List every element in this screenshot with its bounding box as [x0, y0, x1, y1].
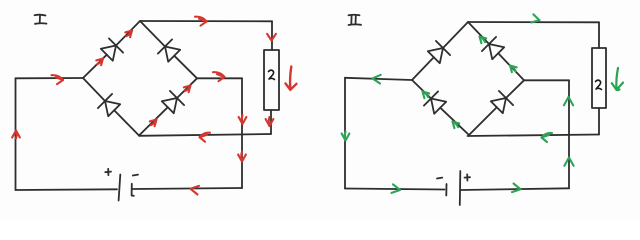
- red arrow right on top wire (circuit I): [195, 17, 207, 26]
- green arrow right on bottom wire left (circuit II): [392, 184, 401, 193]
- diode D3 (circuit I bottom-left): [98, 94, 120, 116]
- wire: bridge side top-right (circuit II): [468, 22, 524, 80]
- resistor R1 label R: [269, 70, 275, 79]
- green arrow up on right vertical lower (circuit II): [564, 158, 573, 166]
- red arrow up on left vertical (circuit I): [12, 131, 20, 139]
- red arrow down beside resistor R1: [286, 67, 297, 90]
- green arrow right on bottom wire right (circuit II): [512, 184, 521, 193]
- resistor R2 body: [592, 48, 606, 108]
- green arrow down beside resistor R2: [612, 68, 623, 90]
- green arrow right on top wire (circuit II): [531, 14, 539, 22]
- red arrow on D1 cathode diagonal (circuit I): [125, 31, 132, 38]
- diode D2 (circuit I top-right): [158, 39, 180, 61]
- wire: bridge side left-top (circuit II): [412, 22, 468, 80]
- battery V1 minus sign: [133, 174, 138, 177]
- green arrow on D6 anode diagonal (circuit II): [510, 66, 517, 73]
- green arrow on D6 cathode diagonal (circuit II): [480, 37, 487, 44]
- battery V1 positive plate (long): [119, 175, 121, 201]
- wire: right vertical x=569 (circuit II): [568, 80, 570, 188]
- battery V1 negative plate (short): [132, 184, 134, 196]
- resistor R2 label R: [596, 80, 602, 89]
- wire: top horizontal (circuit I): [140, 20, 272, 22]
- green arrow left on left horizontal (circuit II): [373, 75, 381, 84]
- diode D5 (circuit II top-left): [428, 41, 450, 63]
- wire: left vertical (circuit II): [344, 78, 346, 189]
- green arrow on D7 anode diagonal (circuit II): [453, 122, 460, 129]
- wire: bridge side bottom-right (circuit II): [469, 80, 524, 135]
- wire: bridge side bottom-right (circuit I): [139, 78, 197, 135]
- wire: top horizontal (circuit II): [468, 21, 599, 23]
- red arrow down on right vertical lower (circuit I): [238, 152, 246, 162]
- wire: resistor R1 bottom lead: [270, 110, 272, 134]
- diode D7 (circuit II bottom-left): [424, 91, 446, 113]
- green arrow left on bottom-vertex wire (circuit II): [542, 133, 553, 142]
- red arrow down on R1 top lead (circuit I): [267, 34, 276, 41]
- wire: bottom-vertex horizontal to R1 (circuit I): [139, 134, 271, 136]
- red arrow on D4 cathode diagonal (circuit I): [184, 86, 191, 93]
- green arrow up on right vertical upper (circuit II): [564, 97, 573, 105]
- battery V1 plus sign: [105, 169, 111, 175]
- diode D1 (circuit I top-left): [101, 38, 123, 60]
- red arrow right on left horizontal (circuit I): [52, 75, 64, 84]
- battery V2 plus sign: [465, 174, 471, 180]
- diode D6 (circuit II top-right): [482, 37, 504, 59]
- wire: resistor R2 bottom lead: [598, 108, 600, 135]
- wire: resistor R2 top lead: [598, 22, 600, 48]
- label I (circuit I): [35, 15, 47, 24]
- red arrow left on bottom wire (circuit I): [191, 186, 200, 195]
- resistor R1 body: [264, 50, 279, 110]
- wire: right vertical x=242 (circuit I): [241, 78, 243, 188]
- wire: bridge side left-bottom (circuit I): [83, 78, 139, 136]
- wire: right-vertex horizontal (circuit I): [197, 77, 242, 79]
- wire: bottom right from battery + to right corner (circuit II): [461, 188, 569, 190]
- wire: bottom left to battery - (circuit II): [345, 189, 445, 190]
- label II (circuit II): [349, 15, 362, 25]
- battery V2 negative plate (short): [445, 184, 447, 196]
- battery V2 minus sign: [437, 177, 442, 180]
- wire: bridge side left-bottom (circuit II): [412, 80, 469, 135]
- wire: bottom-vertex horizontal to R2 (circuit II): [468, 135, 600, 137]
- red arrow down on right vertical upper (circuit I): [239, 115, 247, 124]
- diode D4 (circuit I bottom-right): [162, 91, 184, 113]
- green arrow on D7 cathode diagonal (circuit II): [423, 92, 430, 99]
- wire: bridge side left-top (circuit I): [83, 21, 140, 78]
- red arrow left on bottom-vertex wire (circuit I): [200, 133, 211, 142]
- wire: left horizontal (circuit I): [16, 77, 84, 79]
- battery V2 positive plate (long): [459, 171, 462, 205]
- green arrow down on left vertical (circuit II): [342, 132, 350, 141]
- wire: left vertical (circuit I): [15, 78, 17, 190]
- red arrow on D1 anode diagonal (circuit I): [96, 59, 103, 66]
- wire: resistor R1 top lead: [271, 21, 273, 50]
- red arrow right on right-vertex wire (circuit I): [213, 72, 225, 81]
- wire: bridge side top-right (circuit I): [140, 21, 197, 78]
- red arrow on D4 anode diagonal (circuit I): [150, 120, 157, 127]
- wire: bottom left to battery + (circuit I): [16, 188, 118, 191]
- wire: left horizontal (circuit II): [345, 78, 412, 80]
- wire: right-vertex horizontal (circuit II): [524, 79, 569, 81]
- red arrow down on R1 bottom lead (circuit I): [266, 117, 274, 126]
- wire: bottom right from battery - to right corner (circuit I): [133, 188, 243, 189]
- diode D8 (circuit II bottom-right): [491, 91, 513, 113]
